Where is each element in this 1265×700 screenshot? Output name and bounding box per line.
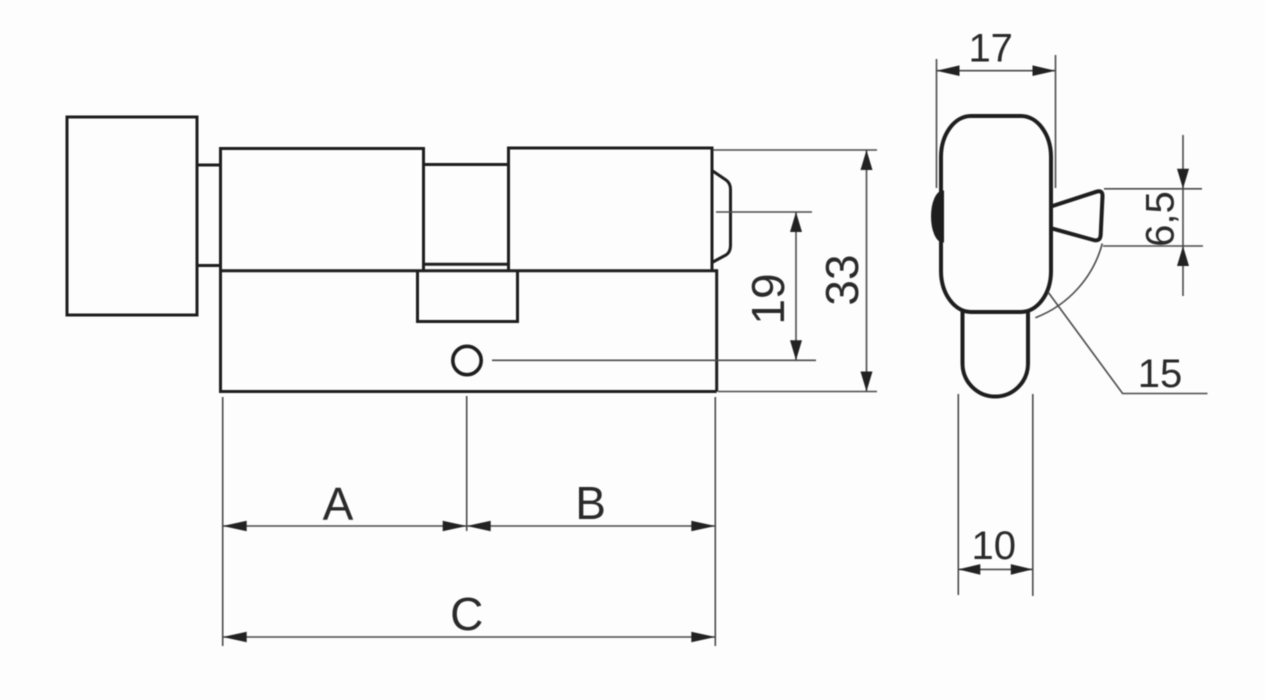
svg-text:10: 10: [972, 524, 1017, 568]
extension line left (A/C): [222, 397, 224, 646]
dim 10 left extension: [957, 394, 959, 595]
dim 17 line: [937, 70, 1056, 72]
profile lower lobe (keyway section): [963, 298, 1029, 397]
housing right edge: [715, 269, 718, 391]
arrow dimB left: [467, 521, 491, 532]
cam front view: [1051, 191, 1103, 240]
svg-text:6,5: 6,5: [1139, 191, 1183, 247]
arrow dimA left: [223, 521, 247, 532]
dim 33 bottom extension: [718, 391, 877, 393]
dim 10 right extension: [1032, 394, 1034, 596]
cam tip side profile: [712, 171, 731, 263]
dim 19 line: [795, 212, 797, 360]
arrow dimC right: [691, 632, 715, 643]
arrow dim33 down: [861, 372, 873, 392]
arrow dim19 down: [790, 340, 802, 360]
svg-text:A: A: [323, 478, 354, 530]
extension line middle: [466, 396, 468, 531]
dim 17 right extension: [1055, 55, 1057, 188]
dim 17 left extension: [936, 59, 938, 188]
cam centerline extension: [716, 211, 812, 213]
dim 6,5 bottom extension: [1103, 245, 1203, 247]
svg-text:33: 33: [816, 254, 868, 305]
cylinder body left edge: [219, 149, 222, 392]
right plug top edge: [509, 147, 713, 150]
middle section top edge: [424, 163, 509, 166]
dim 33 top extension: [713, 149, 877, 151]
middle section bottom edge: [424, 263, 509, 266]
arrow dim10 left: [958, 564, 980, 575]
dim C line: [223, 636, 716, 638]
hole centerline extension: [492, 359, 816, 361]
radius 15 arc: [1035, 244, 1102, 318]
fixing screw hole: [453, 346, 481, 374]
svg-text:17: 17: [968, 27, 1013, 71]
arrow dimC left: [223, 632, 247, 643]
extension line right (B/C): [714, 397, 716, 646]
cam tab under housing: [418, 271, 518, 322]
right plug end edge: [711, 147, 714, 271]
svg-text:C: C: [450, 588, 483, 640]
arrow dim19 up: [790, 212, 802, 232]
housing top edge: [221, 269, 717, 272]
dim 6,5 line: [1182, 135, 1184, 296]
dim 10 line: [958, 568, 1033, 570]
knob neck: [197, 165, 221, 266]
thumbturn knob: [67, 117, 197, 315]
arrow dimA right: [443, 521, 467, 532]
leader line 15: [1048, 292, 1208, 394]
dim 6,5 top extension: [1104, 188, 1202, 190]
arrow dim17 left: [937, 65, 960, 76]
profile body: [941, 116, 1051, 312]
dim 33 line: [866, 150, 868, 392]
arrow dim6,5 bottom: [1177, 246, 1189, 266]
svg-text:B: B: [575, 477, 606, 529]
left bulge: [932, 192, 943, 242]
dim B line: [467, 525, 716, 527]
housing bottom edge: [219, 390, 717, 393]
svg-text:15: 15: [1138, 352, 1183, 396]
svg-text:19: 19: [742, 273, 794, 324]
arrow dim33 up: [861, 150, 873, 170]
plug step right: [507, 147, 510, 271]
arrow dimB right: [691, 521, 715, 532]
plug step left: [422, 147, 425, 271]
arrow dim10 right: [1011, 564, 1033, 575]
dim A line: [223, 525, 467, 527]
arrow dim6,5 top: [1177, 169, 1189, 189]
arrow dim17 right: [1033, 65, 1056, 76]
left plug top edge: [219, 147, 424, 150]
